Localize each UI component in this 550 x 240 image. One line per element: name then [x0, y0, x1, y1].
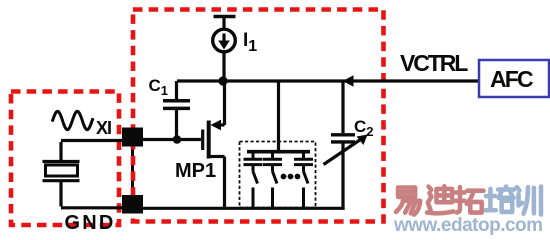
svg-text:www.edatop.com: www.edatop.com [393, 215, 543, 235]
